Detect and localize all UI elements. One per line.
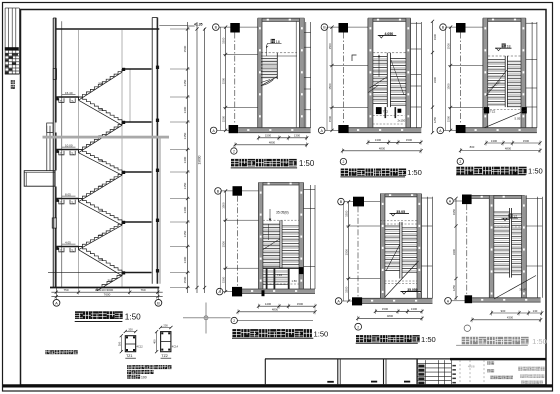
plan 10F: center stringer xyxy=(399,222,401,279)
section: right dimension line 2 (total) xyxy=(196,22,198,293)
section: axis bubble B xyxy=(155,299,162,306)
svg-text:1500: 1500 xyxy=(221,276,225,283)
plan 1F: right bay wall xyxy=(305,22,307,128)
svg-text:1500: 1500 xyxy=(221,77,225,84)
flight 4 xyxy=(79,150,123,173)
svg-text:300: 300 xyxy=(98,233,103,237)
detail TZ1 xyxy=(125,336,135,352)
plan STD: left wall xyxy=(259,183,263,294)
svg-text:1500: 1500 xyxy=(523,139,530,143)
plan 10F: bottom wall xyxy=(362,298,433,303)
plan EQ: left dim line xyxy=(455,198,457,300)
svg-text:1400: 1400 xyxy=(183,256,187,263)
svg-text:300: 300 xyxy=(98,184,103,188)
plan 1F: top wall xyxy=(258,18,305,21)
section: left wall inner finish line xyxy=(61,21,63,287)
svg-text:4800: 4800 xyxy=(379,147,386,151)
plan 3F: bottom axis circle xyxy=(457,158,463,164)
plan 3F: treads left flight xyxy=(488,58,506,60)
plan EQ: right wall xyxy=(522,195,527,302)
plan STD: dashed landing edge xyxy=(263,219,299,221)
svg-text:B: B xyxy=(157,300,160,305)
plan 1F: bottom wall xyxy=(238,128,310,133)
plan 3F: right bay wall xyxy=(531,22,533,128)
flight 8 xyxy=(79,247,123,273)
svg-text:1450: 1450 xyxy=(183,182,187,189)
svg-text:1500: 1500 xyxy=(221,37,225,44)
plan STD: treads left flight xyxy=(263,223,280,225)
plan 1F: bottom axis circle xyxy=(231,148,237,154)
svg-text:1:50: 1:50 xyxy=(125,312,141,321)
svg-text:1500: 1500 xyxy=(446,83,450,90)
svg-text:1500: 1500 xyxy=(344,286,348,293)
plan STD: bottom dim line 2 xyxy=(238,311,315,313)
title block middle dashed columns xyxy=(459,360,461,384)
svg-text:1:50: 1:50 xyxy=(299,159,315,168)
plan 2F: axis line vertical xyxy=(342,33,344,125)
plan 10F: bottom dim line 1 xyxy=(375,310,422,312)
svg-text:4800: 4800 xyxy=(387,314,394,318)
svg-text:TZ2: TZ2 xyxy=(383,110,389,114)
plan EQ: bottom dim line 2 xyxy=(472,319,541,321)
svg-text:TZ2: TZ2 xyxy=(161,354,167,358)
svg-text:100: 100 xyxy=(141,375,147,379)
svg-text:1500: 1500 xyxy=(221,115,225,122)
svg-text:1500: 1500 xyxy=(328,115,332,122)
plan 3F: axis top bubble/column xyxy=(440,24,447,31)
svg-text:35.45: 35.45 xyxy=(519,287,527,291)
svg-text:1:50: 1:50 xyxy=(421,335,436,344)
plan EQ title (gray) xyxy=(462,337,470,345)
plan STD: TZ marks bottom xyxy=(299,267,304,274)
svg-text:1300: 1300 xyxy=(491,139,498,143)
plan 10F: bottom dim line 2 xyxy=(358,317,422,319)
svg-text:2: 2 xyxy=(459,160,461,164)
plan 2F: bottom wall xyxy=(348,128,421,133)
svg-text:400: 400 xyxy=(153,339,157,344)
flight 7 xyxy=(79,222,123,247)
svg-text:300: 300 xyxy=(117,341,121,346)
svg-text:1500: 1500 xyxy=(183,45,187,52)
flight 2 xyxy=(79,97,123,122)
svg-text:1:50: 1:50 xyxy=(532,337,547,346)
plan EQ: elevation 下12 xyxy=(502,217,519,219)
plan 3F: bottom dim line 1 xyxy=(486,142,540,144)
svg-text:1500: 1500 xyxy=(328,43,332,50)
plan EQ: top wall xyxy=(472,195,525,198)
section: bottom dimension lines xyxy=(51,291,162,293)
plan 10F: bottom axis circle xyxy=(355,323,362,330)
svg-text:1500: 1500 xyxy=(406,138,413,142)
crosshair symbol 1 xyxy=(204,316,208,320)
title block labels xyxy=(487,361,490,364)
plan EQ: bottom wall xyxy=(472,298,540,302)
plan 2F: top wall xyxy=(368,18,411,21)
svg-text:2: 2 xyxy=(233,319,235,323)
section: gray highlight band xyxy=(43,136,170,139)
plan 2F: bottom landing TZ columns xyxy=(376,107,382,114)
svg-text:1450: 1450 xyxy=(183,79,187,86)
plan 2F: arrow diagonals xyxy=(370,77,388,88)
section: balcony slab left xyxy=(24,171,55,187)
svg-text:35.050: 35.050 xyxy=(407,288,417,292)
plan 10F: dashed lines top landing xyxy=(380,220,417,222)
plan 1F: axis top bubble/column xyxy=(213,24,220,31)
section: right dimension line 3 xyxy=(204,28,206,293)
plan 3F: diagonal annotation 2x150 xyxy=(486,70,507,96)
plan 3F: top wall xyxy=(483,18,526,21)
svg-text:1:50: 1:50 xyxy=(407,168,422,177)
plan 1F: axis line vertical xyxy=(234,33,236,125)
svg-text:1400: 1400 xyxy=(183,156,187,163)
section title xyxy=(75,311,83,319)
plan STD: right wall xyxy=(299,183,304,294)
svg-text:1500: 1500 xyxy=(446,43,450,50)
svg-text:1:50: 1:50 xyxy=(528,167,543,176)
section: right wall xyxy=(151,18,153,284)
plan 10F: right wall xyxy=(417,194,422,304)
plan 1F: right wall xyxy=(299,18,304,133)
plan 10F: axis bottom bubble/column xyxy=(335,298,342,305)
plan 3F: TZ columns xyxy=(484,107,489,113)
plan STD: top wall xyxy=(259,183,304,186)
plan 3F: axis bottom bubble/column xyxy=(437,127,444,134)
plan 1F: up arrow annotation xyxy=(271,39,275,43)
svg-text:1300: 1300 xyxy=(411,307,418,311)
plan EQ: bottom dim line 1 xyxy=(491,312,541,314)
svg-text:15.40: 15.40 xyxy=(65,91,73,95)
plan EQ: dashed line xyxy=(494,226,522,228)
section: floor landings left xyxy=(56,96,78,98)
svg-text:8.05: 8.05 xyxy=(65,192,71,196)
plan 1F: treads xyxy=(261,58,277,60)
plan STD: arrow diagonal xyxy=(263,239,280,250)
plan STD: bottom flight partial treads xyxy=(263,270,288,272)
plan STD: bottom axis line with circle xyxy=(231,317,237,323)
plan 2F: treads left flight xyxy=(373,56,387,58)
svg-text:1500: 1500 xyxy=(183,276,187,283)
note text under details xyxy=(127,365,131,369)
svg-text:1450: 1450 xyxy=(183,132,187,139)
plan 1F: dashed top landing edge xyxy=(261,52,297,54)
plan 10F title xyxy=(356,335,363,342)
svg-text:1500: 1500 xyxy=(344,210,348,217)
plan 10F: left dim line xyxy=(343,202,345,301)
title block cell tick dashes xyxy=(327,381,334,383)
plan 2F: right bay wall xyxy=(416,22,418,128)
svg-text:18: 18 xyxy=(507,45,511,49)
svg-text:TZ1: TZ1 xyxy=(126,354,132,358)
plan 3F: left wall xyxy=(483,18,488,133)
plan STD: landing beam line xyxy=(263,267,299,269)
section: landing edge verticals xyxy=(78,29,80,288)
plan 3F: treads right flight xyxy=(507,60,521,62)
svg-text:1450: 1450 xyxy=(183,230,187,237)
plan 2F: right wall xyxy=(406,18,411,133)
plan 2F: center stringer xyxy=(386,53,388,107)
svg-text:35.05(B): 35.05(B) xyxy=(276,211,289,215)
svg-text:3300: 3300 xyxy=(452,248,456,255)
plan 3F: bottom wall xyxy=(466,128,537,133)
plan 1F: landing edge line xyxy=(261,55,297,57)
plan EQ: right bay wall xyxy=(537,197,539,298)
svg-text:300: 300 xyxy=(98,209,103,213)
svg-text:TZ2: TZ2 xyxy=(490,110,496,114)
title block right firm text xyxy=(518,367,522,371)
plan 2F: left dim line xyxy=(326,27,328,130)
svg-text:1500: 1500 xyxy=(265,134,272,138)
svg-text:300: 300 xyxy=(98,108,103,112)
svg-text:1300: 1300 xyxy=(375,138,382,142)
plan 10F: right bay wall xyxy=(427,197,429,298)
plan STD: axis line vertical xyxy=(236,196,238,287)
plan 2F: axis bottom bubble/column xyxy=(318,127,325,134)
svg-text:1950: 1950 xyxy=(452,208,456,215)
plan 1F: axis bottom bubble/column xyxy=(210,127,217,134)
plan 10F: treads left flight xyxy=(385,225,400,227)
svg-text:300: 300 xyxy=(98,82,103,86)
plan 2F: axis top bubble/column xyxy=(321,24,328,31)
svg-text:1500: 1500 xyxy=(221,202,225,209)
plan STD: top landing annotation xyxy=(269,209,271,221)
revision table xyxy=(417,363,451,365)
left margin label text xyxy=(11,80,15,84)
plan EQ: center stringer xyxy=(509,208,511,278)
svg-text:4.050: 4.050 xyxy=(385,32,394,36)
plan 2F: right dim line xyxy=(432,21,434,133)
svg-text:200: 200 xyxy=(163,324,168,328)
svg-text:1500: 1500 xyxy=(221,241,225,248)
svg-text:2: 2 xyxy=(233,150,235,154)
svg-text:1900: 1900 xyxy=(433,33,437,40)
svg-text:4800: 4800 xyxy=(272,308,279,312)
plan STD: axis bottom bubble/column xyxy=(216,288,223,295)
plan 3F: right wall xyxy=(521,18,526,133)
plan 1F: stringer xyxy=(276,53,278,79)
title block top edge xyxy=(265,358,546,360)
svg-text:750: 750 xyxy=(63,288,68,292)
plan 2F: dashed top landing edge xyxy=(373,52,406,54)
svg-text:1:50: 1:50 xyxy=(314,330,329,339)
plan 2F: left wall xyxy=(368,18,373,133)
plan 1F title xyxy=(231,159,239,167)
svg-text:2: 2 xyxy=(342,160,344,164)
plan 10F: big break diagonal xyxy=(385,261,419,297)
svg-text:300x10=3000: 300x10=3000 xyxy=(95,288,114,292)
svg-text:1400: 1400 xyxy=(183,106,187,113)
svg-text:7600: 7600 xyxy=(104,293,111,297)
section: left wall window upper xyxy=(53,69,56,80)
plan STD: treads right flight xyxy=(282,225,299,227)
plan 1F: bottom dim line 2 xyxy=(235,144,308,146)
plan EQ: axis top column xyxy=(447,198,454,205)
plan 3F: big break diagonal xyxy=(485,110,526,127)
plan EQ: break diagonal xyxy=(494,276,536,300)
plan 10F: axis line vertical xyxy=(357,206,359,297)
svg-text:4/6/8: 4/6/8 xyxy=(468,364,475,368)
plan 1F: left wall xyxy=(258,18,262,133)
svg-text:1500: 1500 xyxy=(344,249,348,256)
section: level line at mid landing extended xyxy=(48,272,122,274)
svg-text:1500: 1500 xyxy=(382,307,389,311)
svg-text:1500: 1500 xyxy=(446,115,450,122)
plan 10F: treads right flight xyxy=(402,227,417,229)
plan 3F: dashed top landing edge xyxy=(488,55,521,57)
plan 3F: center stringer xyxy=(504,56,506,107)
svg-text:5.05: 5.05 xyxy=(515,117,521,121)
plan 2F: treads right flight xyxy=(390,57,406,59)
plan 10F: arrow diagonal xyxy=(386,244,400,271)
svg-text:4300: 4300 xyxy=(507,316,514,320)
plan STD: beam bars bottom xyxy=(266,268,268,289)
svg-text:800: 800 xyxy=(470,145,475,149)
plan 1F: left dim line xyxy=(220,27,222,130)
flight 6 xyxy=(79,199,123,223)
plan 10F: left wall xyxy=(380,194,385,304)
svg-text:35.05: 35.05 xyxy=(396,210,405,214)
plan 1F: stair well edge line xyxy=(295,21,297,127)
svg-text:1500: 1500 xyxy=(297,302,304,306)
flight 1 xyxy=(79,69,123,97)
plan STD: center stringer xyxy=(279,220,281,268)
plan 10F: axis top bubble/column xyxy=(338,198,345,205)
plan EQ: axis bottom bubble/column xyxy=(445,298,452,305)
revision table right ticks xyxy=(452,365,456,367)
svg-text:1300: 1300 xyxy=(294,134,301,138)
plan 2F title xyxy=(341,169,349,176)
plan 2F: door mark xyxy=(352,55,357,61)
section: left wall window lower xyxy=(52,218,56,228)
svg-text:1250: 1250 xyxy=(433,116,437,123)
plan 10F: bottom landing dashes + elevation xyxy=(385,280,418,282)
plan 3F: bottom dim line 2 xyxy=(461,150,541,152)
plan 10F: top landing elevation 35.05 xyxy=(390,212,410,214)
svg-text:4C12: 4C12 xyxy=(137,345,144,349)
flight 3 xyxy=(79,122,123,150)
plan 3F: elevation text 下18 xyxy=(495,47,512,49)
section: axis bubble A xyxy=(53,299,60,306)
svg-text:19600: 19600 xyxy=(197,155,201,164)
plan STD: left dim line xyxy=(220,191,222,292)
plan 2F: elevation text 4.050 xyxy=(378,34,397,36)
plan EQ: left wall xyxy=(489,195,494,302)
plan 3F: axis line vertical xyxy=(460,33,462,125)
plan 3F: left dim line xyxy=(445,27,447,130)
plan 2F: bottom dim line 2 xyxy=(343,150,422,152)
detail TZ2 xyxy=(161,332,171,352)
svg-text:130: 130 xyxy=(533,309,538,313)
svg-text:1400: 1400 xyxy=(183,206,187,213)
plan 2F: bottom axis circle xyxy=(340,158,346,164)
svg-text:4800: 4800 xyxy=(505,146,512,150)
svg-text:760: 760 xyxy=(140,288,145,292)
note text under section xyxy=(45,350,49,354)
plan STD title xyxy=(232,329,240,337)
flight 5 xyxy=(79,172,123,199)
title block cell borders xyxy=(264,359,266,384)
svg-text:10.00: 10.00 xyxy=(65,143,73,147)
plan STD: right bay wall xyxy=(310,185,312,289)
plan EQ: treads left flight xyxy=(494,211,510,213)
plan STD: bottom dim line 1 xyxy=(259,305,316,307)
plan STD: bottom wall xyxy=(242,289,315,294)
svg-text:300: 300 xyxy=(108,279,113,283)
plan EQ: treads right flight xyxy=(512,213,522,215)
svg-text:41.35: 41.35 xyxy=(194,22,203,26)
section: ground floor slab xyxy=(50,287,159,289)
svg-text:TZ2: TZ2 xyxy=(277,273,283,277)
svg-text:3300: 3300 xyxy=(433,76,437,83)
svg-text:1.50: 1.50 xyxy=(292,279,298,283)
svg-text:2x150: 2x150 xyxy=(398,119,406,123)
svg-text:A: A xyxy=(55,300,58,305)
plan 2F: lower-left break diagonal xyxy=(368,85,379,93)
plan 1F: bottom dim line 1 xyxy=(259,137,308,139)
plan 10F: top wall xyxy=(380,194,422,197)
svg-text:200: 200 xyxy=(128,328,133,332)
section: mid landings right xyxy=(122,68,152,70)
svg-text:300: 300 xyxy=(98,159,103,163)
plan 3F: bottom dashed line xyxy=(483,109,526,111)
svg-text:4800: 4800 xyxy=(269,141,276,145)
plan 2F: bottom dim line 1 xyxy=(368,141,421,143)
plan EQ: axis line vertical xyxy=(466,204,468,295)
svg-text:1250: 1250 xyxy=(452,284,456,291)
section: right dimension line 1 xyxy=(187,22,189,293)
plan 3F title xyxy=(456,167,464,175)
svg-text:1500: 1500 xyxy=(328,83,332,90)
svg-text:300: 300 xyxy=(98,258,103,262)
section: roof slab line xyxy=(56,28,159,30)
left margin sign-off table xyxy=(4,8,6,74)
plan EQ: bottom axis circle xyxy=(464,325,470,331)
section: left wall xyxy=(53,18,56,288)
svg-text:4C14: 4C14 xyxy=(172,345,179,349)
title block bottom thick edge xyxy=(3,384,553,387)
svg-text:4.05: 4.05 xyxy=(65,240,71,244)
svg-text:1400: 1400 xyxy=(265,302,272,306)
section: left wall window mid with sill xyxy=(47,123,53,133)
svg-text:900: 900 xyxy=(501,309,506,313)
plan STD: axis top bubble/column xyxy=(215,188,222,195)
svg-text:2: 2 xyxy=(357,325,359,329)
plan 1F: winder fan xyxy=(261,77,277,86)
flight 9 xyxy=(97,273,122,288)
